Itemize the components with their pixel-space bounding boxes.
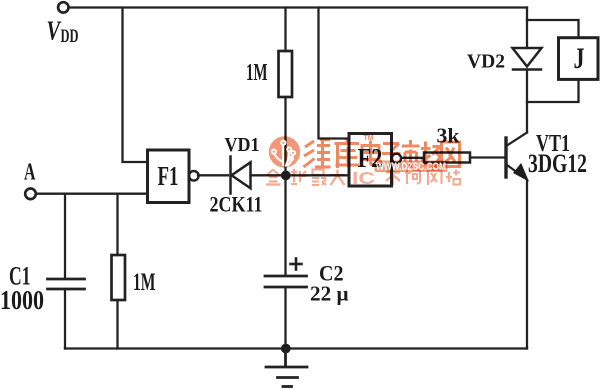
wire A branch to R2 xyxy=(116,194,118,255)
watermark small char quan xyxy=(266,170,281,185)
watermark small char wang2 xyxy=(428,170,442,185)
watermark big char dian xyxy=(362,141,381,166)
junction node dot xyxy=(281,171,290,180)
svg-text:J: J xyxy=(574,43,585,75)
svg-text:TM: TM xyxy=(364,135,374,142)
wire VDD drop to R1 top xyxy=(284,8,286,52)
wire VD2 cathode down to collector node xyxy=(526,70,528,133)
F1 output bubble xyxy=(189,171,199,181)
ground xyxy=(266,349,307,387)
capacitor C2 plus sign xyxy=(291,259,302,270)
wire emitter down to bottom rail xyxy=(526,180,528,349)
svg-text:1M: 1M xyxy=(246,60,268,86)
svg-text:IC: IC xyxy=(352,168,375,188)
terminal VDD xyxy=(58,2,68,12)
watermark big char shi xyxy=(402,140,420,168)
transistor VT1 xyxy=(506,133,528,181)
watermark big char chang xyxy=(421,142,441,168)
watermark logo pattern xyxy=(275,145,293,166)
resistor R1 1M (top) xyxy=(279,51,293,97)
diode VD1 xyxy=(231,157,251,194)
watermark small char da xyxy=(330,170,345,186)
capacitor C2 xyxy=(265,276,307,287)
watermark big char ku xyxy=(335,139,360,169)
watermark xyxy=(266,135,460,188)
gate F1 xyxy=(148,150,190,203)
svg-text:3k: 3k xyxy=(437,124,460,148)
terminal A xyxy=(25,189,36,200)
wire R2 to bottom rail xyxy=(116,300,118,349)
junction node dot bottom xyxy=(281,344,290,353)
F2 output bubble xyxy=(392,154,401,163)
diode VD2 xyxy=(513,48,542,70)
resistor R3 3k xyxy=(424,153,470,163)
watermark logo circle xyxy=(269,136,300,167)
svg-text:WWW.DZSC.COM: WWW.DZSC.COM xyxy=(376,161,446,173)
wire VDD drop to F1 input xyxy=(123,8,148,163)
svg-text:2CK11: 2CK11 xyxy=(210,192,263,217)
wire C2 to bottom rail xyxy=(284,287,286,349)
wire C1 to bottom rail xyxy=(64,289,66,349)
relay J xyxy=(559,38,599,80)
svg-text:DD: DD xyxy=(61,27,79,47)
wire R1 bottom to node xyxy=(284,97,286,275)
svg-text:1M: 1M xyxy=(133,269,156,296)
wire R3 to base xyxy=(470,156,504,158)
svg-text:3DG12: 3DG12 xyxy=(528,149,587,178)
watermark url band xyxy=(375,161,448,173)
wire VDD drop to F2 input xyxy=(319,8,350,139)
watermark small char cai xyxy=(386,169,400,185)
svg-text:F1: F1 xyxy=(158,161,179,191)
svg-text:V: V xyxy=(47,16,62,46)
wire A branch to C1 xyxy=(64,194,66,278)
wire A to F1 input xyxy=(36,193,148,195)
wire bottom rail xyxy=(65,347,527,349)
watermark small char zhan xyxy=(446,170,460,185)
wire top rail xyxy=(69,6,527,8)
watermark small char zui xyxy=(312,170,326,186)
gate F2 xyxy=(349,134,392,187)
svg-text:A: A xyxy=(24,160,36,186)
watermark big char wang xyxy=(442,142,460,167)
capacitor C1 xyxy=(48,279,85,289)
watermark small char gou xyxy=(405,170,420,184)
wire F1 to VD1 xyxy=(198,174,228,176)
wire right rail down to VD2 xyxy=(526,8,528,49)
watermark small char qiu xyxy=(291,169,306,184)
wire F2 to R3 xyxy=(401,157,424,159)
wire VD1 to F2 input xyxy=(251,174,350,176)
wire relay branch top xyxy=(527,20,579,38)
svg-text:1000: 1000 xyxy=(0,285,44,315)
watermark big char wei xyxy=(304,140,331,168)
svg-text:VD2: VD2 xyxy=(467,52,505,73)
resistor R2 1M (bottom-left) xyxy=(112,255,126,300)
watermark big char zi xyxy=(382,144,401,168)
svg-text:22 μ: 22 μ xyxy=(310,282,349,306)
wire relay branch bottom xyxy=(527,79,579,102)
svg-text:VD1: VD1 xyxy=(225,135,260,156)
